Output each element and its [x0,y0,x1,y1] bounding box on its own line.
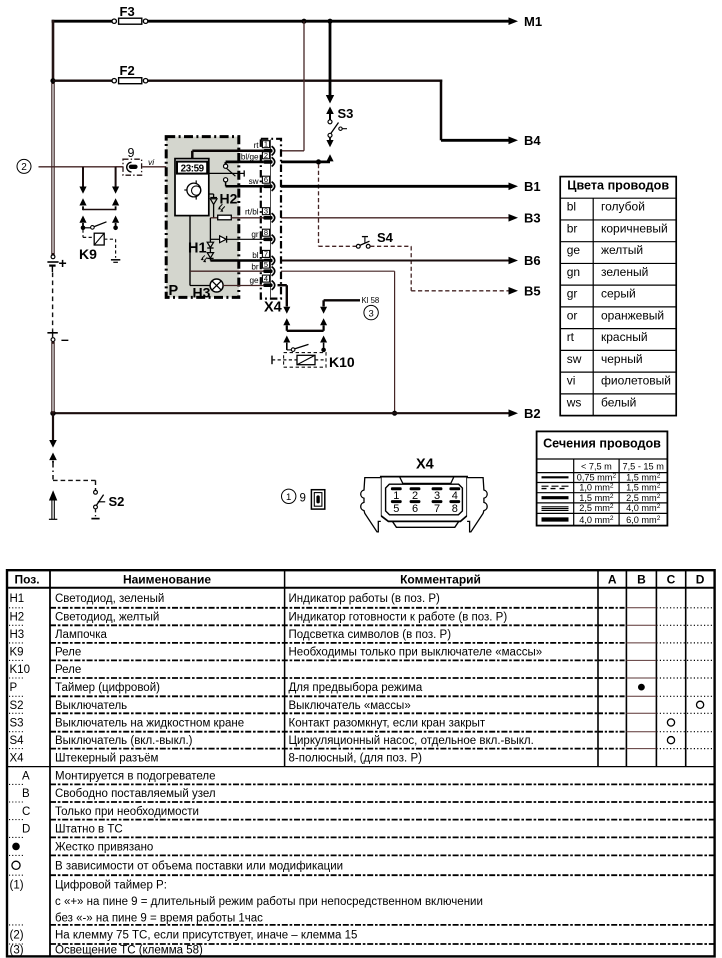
connector X4 pictorial left wing [361,478,381,532]
svg-text:Цвета проводов: Цвета проводов [567,179,669,193]
pin 6 of X4 [262,175,274,191]
svg-text:K9: K9 [10,647,24,659]
timer display 23:59 [177,162,207,175]
svg-text:rt: rt [254,141,260,150]
svg-text:зеленый: зеленый [601,265,648,279]
svg-text:3: 3 [368,308,373,319]
wire K9 right leg [112,167,123,210]
connector pair above S3 [326,107,334,120]
wire vi to timer [142,166,177,168]
svg-text:br: br [567,221,578,235]
svg-text:оранжевый: оранжевый [601,308,664,322]
svg-text:F2: F2 [120,63,135,78]
arrow B1 [509,183,519,191]
svg-text:B2: B2 [524,406,541,421]
svg-text:D: D [22,824,30,836]
connector pair below S3 [326,137,333,161]
junction S4 tap [316,159,321,164]
svg-text:H2: H2 [220,191,238,207]
svg-text:S2: S2 [109,494,125,509]
wire F2 line [53,80,442,82]
svg-text:Жестко привязано: Жестко привязано [55,841,153,853]
wire br pin5 riser to B2 [278,271,395,413]
svg-text:B3: B3 [524,211,541,226]
svg-text:(2): (2) [10,930,24,942]
pin 3 of X4 pictorial [432,487,443,502]
svg-text:rt: rt [567,330,575,344]
svg-text:2,5 mm2: 2,5 mm2 [626,493,661,503]
wire K9 left leg [79,167,86,210]
timer relay contact [209,164,244,182]
svg-text:Индикатор работы (в поз. P): Индикатор работы (в поз. P) [289,593,441,605]
svg-text:sw: sw [567,352,582,366]
svg-text:Свободно поставляемый узел: Свободно поставляемый узел [55,788,216,800]
svg-text:Штатно в ТС: Штатно в ТС [55,824,123,836]
svg-text:Контакт разомкнут, если кран з: Контакт разомкнут, если кран закрыт [289,718,486,730]
svg-text:8: 8 [264,228,268,237]
svg-text:K9: K9 [79,246,97,262]
svg-text:C: C [22,806,30,818]
svg-text:B: B [22,788,30,800]
svg-text:K10: K10 [329,354,355,370]
pin 5 of X4 pictorial [391,500,402,515]
switch S2 [94,490,106,509]
svg-text:S4: S4 [10,735,25,747]
wire ge pin4 to K10 [278,285,291,331]
wire battery negative to B2 [51,342,54,413]
svg-text:Kl 58: Kl 58 [362,296,380,305]
svg-text:F3: F3 [120,4,135,19]
relay K10 coil [272,353,326,368]
svg-text:X4: X4 [10,753,25,765]
svg-text:A: A [22,771,30,783]
svg-text:Циркуляционный насос, отдельно: Циркуляционный насос, отдельное вкл.-вык… [289,735,534,747]
svg-text:Выключатель (вкл.-выкл.): Выключатель (вкл.-выкл.) [55,735,193,747]
switch S3 [328,120,347,138]
svg-text:S4: S4 [377,230,394,245]
wire bl inside timer [210,259,263,261]
pin 7 of X4 [262,249,274,265]
svg-text:белый: белый [601,395,636,409]
svg-text:7: 7 [264,249,268,258]
connector X4 strip body [261,139,281,299]
svg-text:4,0 mm2: 4,0 mm2 [579,515,614,525]
svg-text:без «-» на пине 9 = время рабо: без «-» на пине 9 = время работы 1час [55,913,263,925]
svg-text:P: P [10,682,18,694]
wire battery positive feed [52,20,55,255]
svg-text:2,5 mm2: 2,5 mm2 [579,503,614,513]
svg-text:X4: X4 [264,300,282,316]
svg-text:A: A [608,572,617,586]
svg-text:6: 6 [264,175,268,184]
wire rt riser pin1 to bus [278,21,305,151]
relay K9 contact [81,222,118,230]
wire br inside timer [190,270,263,272]
lamp H3 [190,279,263,292]
pin 2 of X4 [262,151,274,167]
svg-text:P: P [169,283,179,299]
svg-text:H1: H1 [188,241,207,257]
connector X4 pictorial right wing [467,478,487,532]
svg-text:4,0 mm2: 4,0 mm2 [626,503,661,513]
arrow M1 [509,17,519,25]
pin 2 of X4 pictorial [410,487,421,502]
svg-text:H3: H3 [193,285,211,301]
connector X4 pictorial body [381,477,467,528]
switch S4 [356,237,370,249]
svg-text:1,5 mm2: 1,5 mm2 [626,472,661,482]
svg-text:Выключатель «массы»: Выключатель «массы» [289,700,411,712]
svg-text:M1: M1 [524,14,542,29]
button 9 [123,159,142,175]
svg-text:5: 5 [264,260,268,269]
svg-text:6,0 mm2: 6,0 mm2 [626,515,661,525]
wire B4 drop [441,80,509,141]
svg-text:23:59: 23:59 [181,163,205,174]
pin 3 of X4 [262,207,274,223]
wire ground feed below B2 [49,413,57,479]
svg-text:8-полюсный, (для поз. P): 8-полюсный, (для поз. P) [289,753,423,765]
wire dashed battery link [52,273,54,330]
arrow B2 [509,409,519,417]
junction F2 tap [50,78,55,83]
svg-text:H3: H3 [10,629,25,641]
svg-text:с «+» на пине 9 = длительный р: с «+» на пине 9 = длительный режим работ… [55,896,483,908]
svg-text:Светодиод, желтый: Светодиод, желтый [55,612,159,624]
svg-text:Только при необходимости: Только при необходимости [55,806,199,818]
wire S3 feed from bus [326,21,334,103]
fuse F3 [112,18,148,24]
svg-text:C: C [667,572,676,586]
svg-text:ws: ws [566,395,582,409]
arrow B4 [509,137,519,145]
svg-text:B4: B4 [524,133,541,148]
svg-text:1,0 mm2: 1,0 mm2 [579,483,614,493]
wire B3 from pin3 [278,217,509,219]
svg-text:1,5 mm2: 1,5 mm2 [626,483,661,493]
svg-text:2: 2 [21,162,27,173]
svg-text:bl: bl [252,251,259,260]
wire node2 to button 9 [39,166,123,168]
svg-text:Штекерный разъём: Штекерный разъём [55,753,159,765]
svg-text:4: 4 [264,274,268,283]
svg-text:B5: B5 [524,284,541,299]
svg-text:+: + [59,255,67,271]
svg-text:D: D [696,572,705,586]
relay K10 contact [287,344,326,352]
wire B6 from pin7 [278,259,509,261]
arrow B6 [509,257,519,265]
timer unit box [175,159,209,216]
svg-text:9: 9 [128,146,135,160]
svg-text:H1: H1 [10,593,25,605]
svg-text:ge: ge [567,243,581,257]
pin 1 of X4 [262,140,274,156]
pin 1 of X4 pictorial [391,487,402,502]
svg-text:1: 1 [286,492,291,503]
svg-text:Таймер (цифровой): Таймер (цифровой) [55,682,160,694]
wire B2 [53,412,509,414]
pin 4 of X4 [262,274,274,290]
svg-text:1: 1 [264,140,268,149]
svg-text:Для предвыбора режима: Для предвыбора режима [289,682,423,694]
svg-text:Реле: Реле [55,664,81,676]
LED H1 [201,242,214,262]
pin 8 of X4 [262,228,274,244]
chassis arrow [49,490,57,519]
svg-text:7,5 - 15 m: 7,5 - 15 m [623,461,665,471]
svg-text:В зависимости от объема постав: В зависимости от объема поставки или мод… [55,860,343,872]
svg-text:1,5 mm2: 1,5 mm2 [579,493,614,503]
component legend table [7,570,715,956]
arrow B3 [509,214,519,222]
svg-text:or: or [567,308,578,322]
svg-text:9: 9 [300,493,306,505]
relay K9 coil [83,230,120,263]
svg-text:bl: bl [567,200,576,214]
junction B2 left [50,411,55,416]
pin 7 of X4 pictorial [432,500,443,515]
resistor in rt/bl line [210,215,263,220]
svg-text:Наименование: Наименование [123,572,211,586]
svg-text:bl/ge: bl/ge [241,152,259,161]
svg-text:3: 3 [264,207,268,216]
svg-text:Комментарий: Комментарий [400,572,481,586]
svg-text:Лампочка: Лампочка [55,629,107,641]
pin 4 of X4 pictorial [449,487,460,502]
arrow B5 [509,287,519,295]
timer P block body [166,137,239,298]
wire K10 right leg to Kl58 [320,300,360,331]
pin 8 of X4 pictorial [449,500,460,515]
svg-text:S3: S3 [338,106,354,121]
svg-text:Монтируется в подогревателе: Монтируется в подогревателе [55,771,216,783]
svg-text:8: 8 [452,503,458,515]
svg-text:–: – [61,331,69,347]
svg-text:Освещение ТС (клемма 58): Освещение ТС (клемма 58) [55,945,203,957]
svg-text:Выключатель: Выключатель [55,700,127,712]
svg-text:gr: gr [251,230,259,239]
svg-text:S3: S3 [10,718,24,730]
svg-text:фиолетовый: фиолетовый [601,374,671,388]
svg-text:Поз.: Поз. [14,572,39,586]
node 3 circle [364,305,378,319]
svg-text:На клемму 75 ТС, если присутст: На клемму 75 ТС, если присутствует, инач… [55,930,357,942]
wire K9 U link [83,209,116,211]
svg-text:gn: gn [567,265,580,279]
svg-text:B6: B6 [524,253,541,268]
svg-text:(1): (1) [10,880,24,892]
svg-text:Реле: Реле [55,647,81,659]
fuse F2 [112,78,148,84]
wire dashed to S2 [53,480,96,490]
svg-text:Индикатор готовности к работе: Индикатор готовности к работе (в поз. P) [289,612,508,624]
svg-text:vi: vi [567,374,576,388]
junction S3 feed [327,19,332,24]
wire K10 U link [287,330,324,332]
wire colors legend table [560,177,676,416]
svg-text:голубой: голубой [601,200,645,214]
wire rt from timer to pin1 [192,151,263,159]
battery negative terminal [47,329,57,341]
svg-text:черный: черный [601,352,643,366]
svg-text:6: 6 [412,503,418,515]
svg-text:X4: X4 [416,457,434,473]
svg-text:br: br [251,263,259,272]
connector pair K9 contact [79,216,119,228]
timer knob [184,180,201,199]
wire timer bottom feed [189,216,191,286]
wire F3 bus to M1 [52,20,509,23]
pin 6 of X4 pictorial [410,500,421,515]
wire bl/ge pin2 [278,160,331,163]
wire sections legend table [537,431,668,525]
node 2 circle [17,159,31,173]
LED H2 [209,194,225,218]
node 1 circle legend [282,489,296,503]
svg-text:B: B [637,572,646,586]
wire sw inside timer [226,182,264,187]
svg-text:Выключатель на жидкостном кран: Выключатель на жидкостном кране [55,718,244,730]
svg-text:коричневый: коричневый [601,221,668,235]
svg-text:0,75 mm2: 0,75 mm2 [577,472,617,482]
junction rt riser [301,19,306,24]
svg-text:Необходимы только при выключат: Необходимы только при выключателе «массы… [289,647,543,659]
wire bl/ge inside timer [226,162,264,164]
svg-text:2: 2 [264,151,268,160]
svg-text:5: 5 [393,503,399,515]
svg-text:gr: gr [567,287,578,301]
connector pair K10 contact [283,336,327,350]
wire internal vertical H1 feed [209,218,211,242]
wire B5 dashed [370,246,508,290]
svg-text:7: 7 [434,503,440,515]
button face legend [311,490,324,509]
svg-text:B1: B1 [524,179,541,194]
svg-text:S2: S2 [10,700,24,712]
svg-text:Цифровой таймер P:: Цифровой таймер P: [55,880,167,892]
wire S2 to ground [91,509,99,519]
svg-text:K10: K10 [10,664,30,676]
svg-text:(3): (3) [10,945,24,957]
pin 5 of X4 [262,260,274,276]
wire dashed to S4 [319,164,357,246]
svg-text:H2: H2 [10,612,25,624]
battery positive terminal [47,255,58,272]
svg-text:серый: серый [601,287,636,301]
svg-text:< 7,5 m: < 7,5 m [581,461,612,471]
svg-text:ge: ge [249,276,259,285]
svg-text:желтый: желтый [601,243,643,257]
svg-text:красный: красный [601,330,648,344]
junction br on B2 [392,411,397,416]
svg-text:Подсветка символов (в поз. P): Подсветка символов (в поз. P) [289,629,452,641]
svg-text:sw: sw [249,177,259,186]
svg-text:Светодиод, зеленый: Светодиод, зеленый [55,593,164,605]
svg-text:rt/bl: rt/bl [245,208,259,217]
wire B1 from pin6 [278,185,509,188]
diode to pin8 [210,236,263,243]
svg-text:Сечения проводов: Сечения проводов [543,436,661,450]
